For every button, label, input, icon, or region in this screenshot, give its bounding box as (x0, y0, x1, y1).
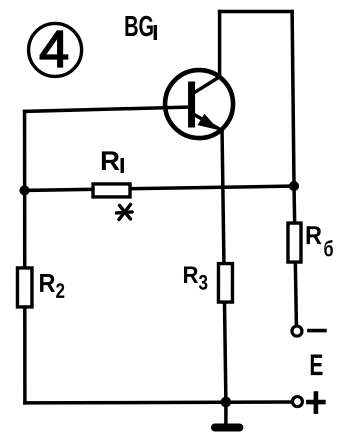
node A (junction R1-left / R2) (19, 185, 29, 195)
svg-text:R: R (38, 268, 55, 298)
svg-text:3: 3 (198, 272, 208, 295)
figure number 4 (circled) (29, 21, 82, 79)
svg-text:2: 2 (55, 280, 65, 303)
wire collector up (218, 12, 222, 77)
label R3 (182, 262, 208, 295)
wire right vertical (292, 12, 294, 187)
svg-text:BG: BG (124, 11, 154, 43)
label Rb (305, 220, 334, 261)
resistor R2 (17, 268, 32, 307)
resistor R1 (93, 184, 130, 197)
label R2 (38, 268, 65, 303)
asterisk (value mark for R1) (116, 204, 132, 219)
wire R1 row (left junction to right junction) (25, 186, 295, 191)
label BG1 (124, 11, 157, 43)
terminal plus (open circle) (292, 397, 302, 407)
svg-text:б: б (323, 236, 333, 261)
resistor R3 (218, 264, 232, 303)
transistor BG1 (165, 70, 233, 138)
label R1 (100, 146, 124, 176)
svg-text:R: R (182, 262, 198, 289)
wire emitter/R3 vertical (transistor to bottom junction) (222, 130, 226, 402)
wire bottom (left corner to + terminal) (25, 402, 292, 403)
svg-text:E: E (309, 349, 323, 382)
ground (215, 402, 240, 428)
node B (junction right vertical / R1 / Rb) (289, 181, 299, 191)
resistor Rb (288, 223, 301, 262)
svg-text:R: R (100, 146, 120, 176)
node C (junction bottom wire / R3) (221, 397, 232, 408)
wire base (left corner to transistor base bar) (25, 107, 191, 112)
wire top (220, 10, 293, 14)
minus sign (309, 329, 325, 333)
plus sign (308, 394, 323, 412)
svg-text:4: 4 (39, 21, 69, 79)
wire left vertical (top corner down through R2 to bottom corner) (23, 111, 27, 403)
terminal minus (open circle) (292, 326, 302, 336)
svg-text:R: R (305, 220, 322, 250)
wire Rb branch (junction down through Rb to - terminal) (294, 186, 297, 327)
